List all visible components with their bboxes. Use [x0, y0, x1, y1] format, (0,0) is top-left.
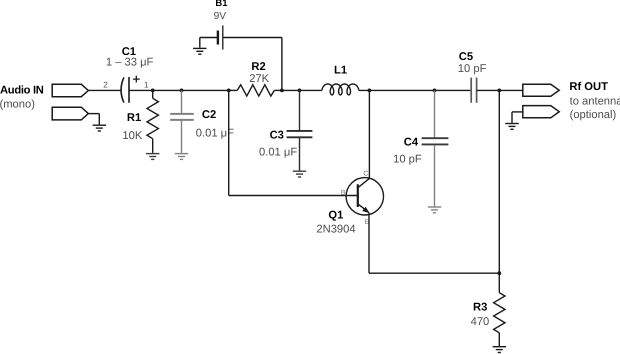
- capacitor C1 (polarized): [121, 76, 140, 103]
- junction node R2/B1: [280, 89, 284, 93]
- label L1: [334, 64, 347, 76]
- resistor R1: [147, 90, 158, 152]
- svg-text:to antenna: to antenna: [570, 95, 620, 107]
- label R3: [473, 302, 487, 314]
- svg-text:(mono): (mono): [0, 98, 35, 110]
- wire emitter drop: [368, 213, 370, 274]
- ground C4: [428, 207, 441, 213]
- wire J2 to ground: [88, 114, 99, 125]
- value 10 pF (C5): [458, 63, 487, 75]
- svg-text:2: 2: [103, 80, 108, 89]
- label C5: [459, 51, 473, 63]
- svg-text:10 pF: 10 pF: [393, 153, 422, 165]
- pin label B: [341, 190, 346, 197]
- transistor Q1: [346, 178, 383, 215]
- svg-text:L1: L1: [334, 64, 347, 76]
- value 10K: [122, 130, 142, 142]
- wire base drop to Q1: [229, 90, 357, 195]
- svg-text:R2: R2: [251, 61, 265, 73]
- value 0.01 µF (C3): [259, 147, 297, 159]
- label to antenna: [570, 95, 620, 107]
- svg-text:C2: C2: [202, 109, 216, 121]
- junction node C3: [298, 89, 302, 93]
- wire collector drop: [368, 90, 370, 178]
- label C1: [122, 46, 136, 58]
- junction node C2: [180, 89, 184, 93]
- label Rf OUT: [569, 81, 608, 93]
- svg-text:1: 1: [144, 80, 149, 89]
- ground R1: [146, 154, 159, 160]
- wire output node down to R3: [498, 90, 500, 292]
- svg-text:1 – 33 μF: 1 – 33 μF: [106, 57, 154, 69]
- value 1 – 33 µF: [106, 57, 154, 69]
- value 27K: [249, 73, 269, 85]
- svg-text:2N3904: 2N3904: [316, 224, 355, 236]
- pin label E: [365, 219, 370, 226]
- ground R3: [493, 347, 506, 353]
- svg-text:Q1: Q1: [328, 210, 343, 222]
- wire emitter to R3 node: [369, 272, 499, 274]
- connector J3 Rf OUT signal: [523, 84, 559, 96]
- resistor R2: [229, 85, 282, 96]
- pin label 1 of C1: [144, 80, 149, 89]
- svg-text:10 pF: 10 pF: [458, 63, 487, 75]
- wire R2 node to L1: [282, 89, 322, 91]
- ground C3: [293, 171, 306, 177]
- svg-text:C5: C5: [459, 51, 473, 63]
- svg-text:Audio IN: Audio IN: [0, 84, 44, 96]
- label (mono): [0, 98, 35, 110]
- label C4: [404, 136, 419, 148]
- svg-text:Rf OUT: Rf OUT: [569, 81, 608, 93]
- svg-text:470: 470: [471, 316, 490, 328]
- inductor L1: [322, 84, 359, 95]
- label Audio IN: [0, 84, 44, 96]
- capacitor C5: [471, 78, 476, 103]
- wire J4 to ground: [512, 112, 523, 123]
- capacitor C4: [422, 90, 449, 206]
- wire audio in to C1: [88, 89, 120, 91]
- svg-text:C: C: [363, 171, 368, 178]
- junction node emitter/R3: [497, 271, 501, 275]
- connector J4 Rf OUT ground: [523, 106, 559, 118]
- junction node output: [497, 89, 501, 93]
- ground audio in: [93, 125, 106, 131]
- svg-text:C3: C3: [270, 129, 284, 141]
- junction node collector: [368, 89, 372, 93]
- connector J1 Audio IN signal: [52, 84, 88, 96]
- wire C1 to R2: [129, 89, 229, 91]
- svg-text:C4: C4: [404, 136, 419, 148]
- svg-text:R1: R1: [127, 112, 141, 124]
- junction node C4: [433, 89, 437, 93]
- capacitor C3: [287, 90, 313, 170]
- label (optional): [570, 109, 617, 121]
- value 9V: [214, 11, 227, 22]
- junction node C1/R1: [151, 89, 155, 93]
- label B1: [215, 0, 228, 9]
- svg-text:9V: 9V: [214, 11, 227, 22]
- svg-text:(optional): (optional): [570, 109, 617, 121]
- svg-text:27K: 27K: [249, 73, 269, 85]
- value 0.01 µF (C2): [196, 127, 234, 139]
- value 470: [471, 316, 490, 328]
- battery B1: [218, 25, 223, 49]
- wire L1 to C5: [359, 89, 471, 91]
- junction node base drop: [227, 89, 231, 93]
- ground Rf out: [505, 124, 518, 130]
- value 10 pF (C4): [393, 153, 422, 165]
- label R1: [127, 112, 141, 124]
- wire B1 negative to ground: [200, 38, 217, 48]
- ground B1: [193, 48, 206, 54]
- pin label C: [363, 171, 368, 178]
- label C3: [270, 129, 284, 141]
- label C2: [202, 109, 216, 121]
- wire C5 to output node: [477, 89, 523, 91]
- pin label 2 of C1: [103, 80, 108, 89]
- svg-text:B1: B1: [215, 0, 228, 9]
- ground C2: [175, 154, 188, 160]
- svg-text:B: B: [341, 190, 346, 197]
- wire B1 positive to node: [224, 38, 282, 91]
- svg-text:10K: 10K: [122, 130, 142, 142]
- svg-text:R3: R3: [473, 302, 487, 314]
- value 2N3904: [316, 224, 355, 236]
- capacitor C2: [170, 90, 194, 152]
- resistor R3: [494, 293, 505, 346]
- svg-text:0.01 μF: 0.01 μF: [259, 147, 297, 159]
- label R2: [251, 61, 265, 73]
- connector J2 Audio IN ground: [52, 107, 88, 120]
- label Q1: [328, 210, 343, 222]
